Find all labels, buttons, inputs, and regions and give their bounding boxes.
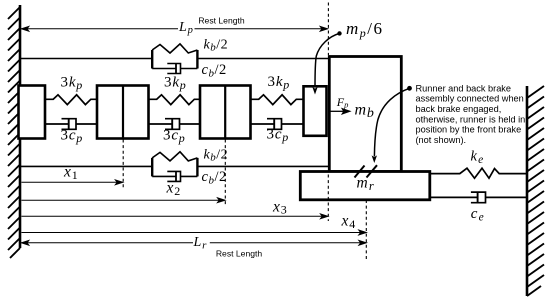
svg-text:assembly connected when: assembly connected when [416, 94, 524, 104]
svg-text:Rest Length: Rest Length [198, 16, 245, 26]
damper ce [430, 192, 527, 203]
svg-text:cb/2: cb/2 [202, 62, 227, 79]
svg-text:3kp: 3kp [164, 75, 187, 92]
spring 3kp 2 [149, 95, 201, 105]
wire top branch line wall to box [20, 58, 152, 60]
spring kb/2 bottom branch [152, 152, 197, 177]
wire bottom branch line wall to box [20, 165, 152, 167]
node x3 dashed reference [327, 175, 329, 222]
damper cb/2 top branch [152, 64, 197, 74]
mass mb body [329, 57, 401, 172]
force Fp arrow [330, 109, 350, 114]
annotation runner note [416, 83, 526, 145]
damper 3cp 2 [149, 119, 201, 130]
spring kb/2 top branch [152, 44, 197, 69]
wire top branch line box to mass mb [197, 58, 329, 60]
dimension Lr [21, 240, 366, 245]
svg-text:back brake engaged,: back brake engaged, [416, 104, 502, 114]
svg-text:cb/2: cb/2 [202, 169, 227, 186]
node Lp dashed reference top [327, 3, 329, 56]
spring ke [430, 168, 527, 178]
mass block 4 (narrow, pedal sixth mass) [304, 86, 327, 136]
left wall [8, 5, 20, 258]
svg-text:3cp: 3cp [267, 126, 290, 143]
damper cb/2 bottom branch [152, 171, 197, 181]
mass block 1 (wall block) [19, 86, 46, 139]
mass mr runner [300, 172, 430, 200]
dimension x4 [22, 230, 367, 235]
dimension x1 [22, 180, 123, 185]
pointer runner note curve [407, 86, 412, 91]
damper 3cp 3 [251, 119, 304, 130]
pointer mp/6 curve [337, 31, 341, 35]
svg-text:3cp: 3cp [61, 128, 84, 145]
dimension x3 [22, 214, 329, 219]
node x2 dashed reference [224, 140, 226, 207]
svg-text:kb/2: kb/2 [204, 147, 229, 163]
svg-text:(not shown).: (not shown). [416, 135, 467, 145]
spring 3kp 3 [251, 95, 304, 105]
node x1 dashed reference [122, 140, 124, 190]
break symbol (double slash) [355, 165, 378, 177]
svg-text:Runner and back brake: Runner and back brake [416, 83, 512, 93]
dimension x2 [22, 198, 226, 203]
svg-text:position by the front brake: position by the front brake [416, 125, 522, 135]
dimension Lp [21, 26, 327, 31]
mass block 3 (double) [200, 86, 251, 139]
svg-text:kb/2: kb/2 [204, 37, 229, 53]
spring 3kp 1 [45, 95, 97, 105]
svg-text:3kp: 3kp [61, 75, 84, 92]
svg-text:Rest Length: Rest Length [216, 248, 263, 258]
svg-text:3cp: 3cp [163, 128, 186, 145]
damper 3cp 1 [45, 119, 97, 130]
wire bottom branch line box to mass mb [197, 165, 329, 167]
mass block 2 (double) [97, 86, 149, 139]
node x4 dashed reference [365, 200, 367, 261]
svg-text:otherwise, runner is held in: otherwise, runner is held in [416, 114, 526, 124]
right wall [527, 86, 544, 296]
svg-text:3kp: 3kp [268, 74, 291, 91]
